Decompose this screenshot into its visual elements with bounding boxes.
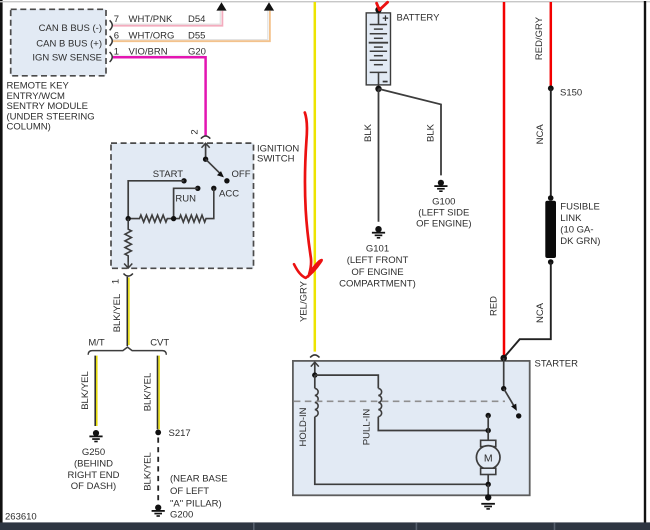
resistor R3 (vertical) — [125, 219, 131, 263]
ground G100 symbol — [434, 180, 447, 192]
switch arm toward OFF — [206, 159, 220, 173]
contact node OFF — [224, 178, 229, 183]
ignition switch label — [257, 144, 299, 165]
coil HOLD-IN — [315, 388, 318, 416]
svg-text:OF ENGINE): OF ENGINE) — [416, 219, 471, 230]
entry arrow into starter — [311, 362, 319, 367]
wire BLK/YEL black (CVT branch) — [157, 356, 159, 430]
wire WHT/ORG white tracer — [113, 11, 268, 40]
svg-text:BLK/YEL: BLK/YEL — [143, 452, 154, 491]
red annotation arrowhead check — [294, 260, 322, 278]
wire BLK battery to G100 — [379, 89, 442, 176]
svg-text:1: 1 — [111, 279, 122, 284]
splice node S150 — [548, 85, 554, 91]
ground G101 symbol — [372, 226, 385, 239]
svg-text:CAN B BUS (-): CAN B BUS (-) — [39, 23, 102, 34]
svg-text:COLUMN): COLUMN) — [7, 122, 51, 133]
svg-text:BLK: BLK — [363, 123, 374, 142]
connector arc pin 1 at ignition switch bottom — [124, 274, 133, 277]
svg-text:1: 1 — [114, 47, 119, 58]
svg-text:(10 GA-: (10 GA- — [560, 225, 593, 236]
svg-text:OF ENGINE: OF ENGINE — [351, 267, 403, 278]
module U1: remote key entry/WCM sentry module box — [11, 9, 106, 76]
ground G100 text — [416, 196, 471, 229]
svg-text:S217: S217 — [169, 428, 191, 439]
svg-text:G101: G101 — [366, 244, 389, 255]
contact node ACC — [211, 186, 216, 191]
svg-text:2: 2 — [190, 129, 201, 134]
connector arc pin 6 — [110, 36, 113, 46]
wire VIO/BRN magenta — [113, 57, 206, 135]
starter M1 box — [293, 361, 530, 495]
svg-text:M/T: M/T — [88, 337, 105, 348]
svg-text:BLK/YEL: BLK/YEL — [142, 373, 153, 412]
svg-text:BATTERY: BATTERY — [397, 13, 441, 24]
wire motor to ground — [487, 484, 489, 497]
svg-text:NCA: NCA — [535, 124, 546, 145]
svg-text:VIO/BRN: VIO/BRN — [129, 47, 168, 58]
svg-text:DK GRN): DK GRN) — [560, 236, 600, 247]
connector arc pin 1 — [110, 52, 113, 62]
wire VIO/BRN white tracer — [113, 54, 204, 56]
contact node START — [181, 178, 186, 183]
connector arc at starter yellow entry — [310, 355, 319, 358]
wire START contact to left rail — [128, 181, 184, 219]
svg-text:M: M — [484, 452, 493, 464]
svg-text:IGN SW SENSE: IGN SW SENSE — [32, 52, 102, 63]
wire RED vertical — [503, 2, 506, 358]
svg-text:OF DASH): OF DASH) — [71, 481, 116, 492]
battery negative terminal stem — [378, 72, 380, 88]
svg-text:PULL-IN: PULL-IN — [361, 409, 372, 446]
wire WHT/PNK white tracer — [113, 11, 220, 24]
svg-text:RED/GRY: RED/GRY — [534, 16, 545, 60]
junction node between resistors — [171, 216, 176, 221]
svg-text:(LEFT SIDE: (LEFT SIDE — [418, 208, 469, 219]
contact node RUN — [195, 186, 200, 191]
fusible link bottom node — [548, 259, 554, 265]
svg-text:(NEAR BASE: (NEAR BASE — [170, 473, 228, 484]
svg-text:S150: S150 — [560, 88, 582, 99]
fusible link F1 body — [545, 201, 556, 258]
page right border — [644, 1, 646, 523]
wire hold-in to motor bottom — [315, 417, 488, 485]
wire RUN contact to resistor junction — [174, 188, 198, 218]
junction node coils — [312, 372, 317, 377]
coil PULL-IN — [378, 388, 381, 416]
resistor R2 (right) — [174, 188, 214, 222]
connector arc pin 7 — [110, 20, 113, 30]
wire BLK/YEL dashed (to G200) — [157, 438, 159, 503]
svg-text:G200: G200 — [170, 510, 193, 521]
svg-text:BLK: BLK — [426, 123, 437, 142]
wire junction to hold-in — [314, 375, 316, 388]
wire BLK/YEL black (M/T branch) — [94, 356, 96, 426]
starter ground node — [485, 494, 491, 500]
svg-text:YEL/GRY: YEL/GRY — [299, 280, 310, 322]
node red feed at starter — [500, 355, 507, 362]
wire BLK/YEL yellow tracer (CVT branch) — [158, 356, 160, 430]
wire entry to junction — [314, 362, 316, 375]
svg-text:CVT: CVT — [150, 337, 169, 348]
wire from entry to pivot — [205, 143, 207, 159]
ground G101 text — [339, 244, 416, 290]
svg-text:BLK/YEL: BLK/YEL — [80, 371, 91, 410]
off-page connector triangle (D54) — [216, 2, 226, 10]
svg-text:G20: G20 — [188, 47, 206, 58]
battery positive terminal stem — [378, 10, 380, 25]
red annotation check at battery — [377, 2, 388, 10]
junction node motor bottom — [486, 482, 491, 487]
wire WHT/PNK pink — [113, 11, 222, 26]
wire BLK/YEL black from ignition — [126, 277, 128, 346]
svg-text:RIGHT END: RIGHT END — [67, 470, 119, 481]
fusible link top node — [548, 195, 554, 201]
wire red feed to switch pivot — [503, 358, 505, 389]
wire motor feed — [487, 416, 489, 485]
svg-text:COMPARTMENT): COMPARTMENT) — [339, 279, 416, 290]
svg-text:START: START — [153, 169, 183, 180]
ignition switch box S1 — [111, 143, 254, 268]
wire pull-in to motor top — [378, 417, 488, 431]
starter switch arm arrowhead — [511, 404, 517, 411]
exit arrow at ignition switch bottom — [124, 262, 132, 268]
bottom taskbar — [0, 522, 650, 530]
ground G250 text — [67, 447, 119, 492]
fusible link text — [560, 202, 600, 247]
svg-text:HOLD-IN: HOLD-IN — [298, 407, 309, 446]
wire NCA lower — [504, 262, 551, 358]
module description text — [7, 81, 95, 133]
junction node pull-in / motor — [486, 428, 491, 433]
svg-text:+: + — [382, 13, 388, 25]
page left border — [0, 0, 3, 523]
battery plates — [369, 25, 388, 73]
svg-text:"A" PILLAR): "A" PILLAR) — [170, 498, 222, 509]
starter switch arm — [504, 389, 514, 406]
svg-text:SWITCH: SWITCH — [257, 153, 295, 164]
mechanical linkage dashed line — [294, 400, 505, 402]
wire junction to pull-in — [315, 375, 379, 388]
wire BLK/YEL yellow tracer (M/T branch) — [96, 356, 98, 426]
option split brace — [88, 347, 166, 355]
starter switch pivot node — [501, 386, 506, 391]
wire BLK/YEL yellow tracer from ignition — [128, 278, 130, 346]
svg-text:G100: G100 — [432, 196, 455, 207]
svg-text:STARTER: STARTER — [535, 359, 579, 370]
battery bottom node — [375, 86, 381, 92]
svg-text:FUSIBLE: FUSIBLE — [560, 202, 600, 213]
motor M brush cap top — [481, 440, 496, 446]
svg-text:LINK: LINK — [560, 213, 582, 224]
resistor R1 (left) — [128, 215, 173, 222]
svg-text:(BEHIND: (BEHIND — [74, 458, 113, 469]
svg-text:BLK/YEL: BLK/YEL — [112, 294, 123, 333]
motor M body — [476, 446, 500, 470]
node motor top — [486, 413, 491, 418]
starter switch contact node — [516, 413, 521, 418]
switch arm arrowhead — [217, 171, 224, 177]
svg-text:263610: 263610 — [5, 512, 37, 523]
svg-text:OF LEFT: OF LEFT — [170, 486, 209, 497]
splice node S217 — [155, 430, 161, 436]
ground G250 symbol — [89, 430, 102, 442]
page top border line — [0, 1, 650, 2]
battery top node — [375, 7, 381, 13]
switch pivot node — [203, 157, 208, 162]
battery minus sign — [383, 81, 388, 83]
svg-text:(LEFT FRONT: (LEFT FRONT — [347, 255, 409, 266]
off-page connector triangle (D55) — [264, 2, 274, 10]
svg-text:OFF: OFF — [232, 169, 251, 180]
wire WHT/ORG orange — [113, 11, 270, 41]
ground G200 text — [170, 473, 228, 520]
entry arrow into ignition switch — [202, 143, 210, 148]
wire YEL/GRY vertical — [314, 2, 317, 352]
red annotation long stroke — [305, 113, 311, 275]
svg-text:NCA: NCA — [535, 302, 546, 323]
wire NCA upper — [550, 88, 552, 198]
svg-text:CAN B BUS (+): CAN B BUS (+) — [36, 38, 102, 49]
svg-text:RUN: RUN — [175, 193, 196, 204]
svg-text:ACC: ACC — [219, 188, 239, 199]
starter ground symbol — [481, 503, 495, 510]
wire RED/GRY vertical — [550, 2, 553, 86]
svg-text:G250: G250 — [82, 447, 105, 458]
connector arc pin 2 at ignition switch — [201, 136, 210, 139]
svg-text:RED: RED — [489, 296, 500, 316]
motor M brush cap bottom — [481, 468, 496, 474]
battery B1 box — [366, 13, 390, 85]
ground G200 symbol — [152, 505, 165, 517]
wire BLK battery to G101 — [378, 89, 380, 222]
junction node left rail — [126, 216, 131, 221]
